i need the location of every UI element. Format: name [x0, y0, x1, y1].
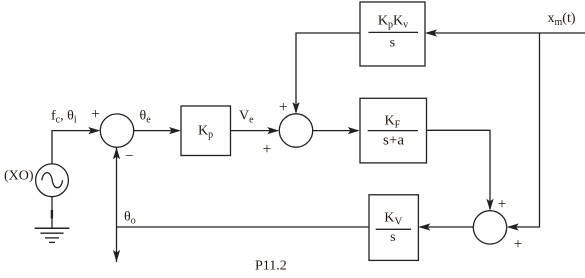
arrowhead into KF	[348, 127, 360, 134]
svg-text:s: s	[390, 35, 395, 50]
wire xm input line	[427, 32, 585, 34]
arrowhead into S3 top	[486, 199, 493, 211]
svg-text:(XO): (XO)	[4, 168, 34, 183]
svg-text:P11.2: P11.2	[255, 258, 287, 273]
arrowhead into KpKv	[425, 29, 437, 36]
svg-text:xm(t): xm(t)	[548, 11, 576, 28]
svg-text:θe: θe	[140, 109, 152, 126]
wire Kp to summer S2	[231, 130, 278, 132]
svg-text:θo: θo	[124, 210, 136, 227]
summing junction S3	[473, 211, 506, 244]
wire KpKv output to S2	[296, 33, 360, 112]
arrowhead into Kv	[418, 223, 430, 230]
svg-text:+: +	[279, 99, 288, 116]
svg-text:+: +	[91, 106, 100, 123]
wire S3 to block Kv	[420, 226, 473, 228]
wire feedback vertical to S1	[116, 147, 118, 262]
wire oscillator to summer S1	[52, 131, 98, 164]
wire Kv output feedback	[117, 226, 370, 228]
summing junction S2	[279, 114, 312, 147]
block KF	[360, 98, 427, 163]
fraction bar Kv	[376, 228, 411, 230]
svg-text:s: s	[390, 230, 395, 245]
arrowhead into S1	[88, 127, 100, 134]
svg-text:+: +	[498, 196, 507, 213]
ground	[35, 210, 70, 242]
wire xm vertical branch	[509, 33, 540, 227]
svg-text:Ve: Ve	[239, 109, 254, 126]
block KpKv	[360, 2, 425, 66]
arrowhead into S1 bottom	[113, 147, 120, 159]
wire KF output to summer S3	[427, 130, 491, 209]
summing junction S1	[100, 114, 133, 147]
block Kv	[369, 195, 418, 261]
block Kp	[181, 106, 231, 156]
svg-text:−: −	[125, 148, 133, 164]
svg-text:fc, θi: fc, θi	[51, 109, 77, 126]
arrowhead into S2	[267, 127, 279, 134]
arrowhead into S2 top	[292, 102, 299, 114]
wire oscillator to ground	[51, 197, 53, 228]
svg-text:KpKv: KpKv	[378, 13, 408, 30]
svg-text:KF: KF	[384, 114, 400, 131]
fraction bar KF	[368, 130, 418, 132]
svg-text:Kp: Kp	[198, 124, 213, 141]
svg-text:+: +	[263, 141, 272, 158]
arrowhead into Kp	[169, 127, 181, 134]
fraction bar KpKv	[369, 31, 419, 33]
wire S1 to block Kp	[134, 130, 179, 132]
wire S2 to block KF	[313, 130, 358, 132]
arrowhead output theta-o down	[113, 250, 120, 262]
oscillator XO	[36, 164, 69, 197]
svg-text:s+a: s+a	[383, 132, 404, 148]
svg-text:+: +	[514, 236, 523, 253]
svg-text:KV: KV	[384, 210, 402, 227]
arrowhead into S3 right	[507, 223, 519, 230]
